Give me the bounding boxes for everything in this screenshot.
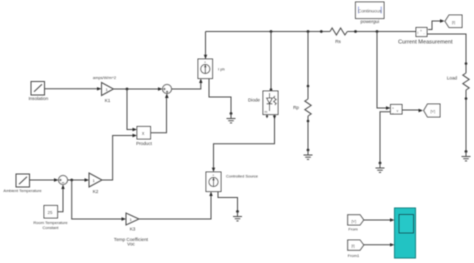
svg-text:powergui: powergui xyxy=(360,19,379,24)
svg-text:Constant: Constant xyxy=(42,225,59,230)
junction rail-diode xyxy=(270,30,273,33)
ground G2 xyxy=(304,149,313,160)
constant block Room Temperature Constant xyxy=(44,206,58,219)
wire Insolation to K1 xyxy=(45,88,99,90)
junction on K1 output xyxy=(126,88,129,91)
wire constant to Sum2 xyxy=(58,188,64,212)
svg-text:Diode: Diode xyxy=(248,97,260,102)
svg-text:1: 1 xyxy=(130,217,133,222)
wire From V to Scope xyxy=(364,219,392,221)
resistor Load xyxy=(463,73,469,90)
wire Sum2 branch to K3 xyxy=(72,180,123,219)
wire Iph negative to ground xyxy=(209,79,231,114)
svg-text:From: From xyxy=(348,226,358,231)
wire K2 to Product input 2 xyxy=(102,136,133,181)
svg-text:Voc: Voc xyxy=(127,242,135,247)
scope block xyxy=(395,208,416,258)
wire Sum2 to K2 xyxy=(68,179,87,181)
gain K2 xyxy=(89,173,102,187)
svg-text:K1: K1 xyxy=(105,98,111,103)
wire Iph top to positive rail xyxy=(205,32,207,60)
svg-text:Rs: Rs xyxy=(335,39,341,44)
wire positive rail xyxy=(206,31,331,33)
wire rail to Rp xyxy=(307,32,309,100)
wire From I to Scope xyxy=(364,244,392,246)
product block Product xyxy=(137,127,151,140)
wire rail to voltage measurement plus xyxy=(377,32,388,109)
ground G5 xyxy=(376,162,385,173)
svg-text:25: 25 xyxy=(48,210,53,215)
gain K1 xyxy=(102,83,114,96)
svg-text:Rp: Rp xyxy=(293,105,299,110)
ground G1 xyxy=(227,112,236,123)
svg-text:Product: Product xyxy=(136,141,153,146)
source block Ambient Temperature xyxy=(16,174,30,187)
ground G4 xyxy=(462,150,471,161)
wire Product output to Sum1 bottom xyxy=(151,98,167,133)
svg-text:Load: Load xyxy=(447,76,458,81)
wire K1 to Sum1 xyxy=(114,88,160,90)
diode measurement stub xyxy=(266,115,268,117)
wire Rp to ground xyxy=(307,116,309,150)
wire Load to ground xyxy=(465,90,467,152)
junction rail-voltmeter xyxy=(376,30,379,33)
junction Sum2 output xyxy=(70,179,73,182)
svg-text:amps/W/m^2: amps/W/m^2 xyxy=(93,75,117,80)
wire branch to Product input 1 xyxy=(127,89,133,130)
svg-text:K2: K2 xyxy=(93,189,99,194)
svg-text:m: m xyxy=(265,110,268,114)
diode D xyxy=(263,91,278,115)
svg-text:[I]: [I] xyxy=(352,244,355,248)
controlled current source U2 xyxy=(206,172,221,192)
svg-text:I ph: I ph xyxy=(218,67,225,72)
wire Sum1 to Iph signal input xyxy=(172,82,201,89)
resistor Rp xyxy=(305,99,311,116)
sum block Sum2 xyxy=(59,176,68,185)
voltage measurement block xyxy=(391,105,403,115)
from tag I xyxy=(348,240,364,250)
svg-text:[V]: [V] xyxy=(352,219,357,223)
ground G3 xyxy=(233,210,242,221)
wire rail to Diode xyxy=(270,32,272,92)
wire voltage measurement minus to ground xyxy=(380,112,391,163)
svg-text:[V]: [V] xyxy=(431,110,436,114)
svg-text:Controlled Source: Controlled Source xyxy=(226,174,259,179)
source block Insolation xyxy=(31,82,45,96)
svg-text:Insolation: Insolation xyxy=(28,96,48,101)
sum block Sum1 xyxy=(163,85,172,94)
junction rail-Rp xyxy=(307,30,310,33)
arrow into controlled source top xyxy=(212,168,215,172)
svg-text:K3: K3 xyxy=(130,227,136,232)
svg-text:Current Measurement: Current Measurement xyxy=(398,39,453,45)
wire K3 to controlled source input xyxy=(139,195,211,220)
goto tag I xyxy=(445,15,462,28)
svg-text:1: 1 xyxy=(93,178,96,183)
svg-text:[I]: [I] xyxy=(452,20,455,24)
svg-text:From1: From1 xyxy=(348,253,360,258)
wire Ambient Temperature to Sum2 xyxy=(30,179,56,181)
current measurement block xyxy=(416,28,427,37)
wire voltage measurement to Goto V xyxy=(402,109,419,111)
svg-text:1: 1 xyxy=(106,87,109,92)
goto tag V xyxy=(424,104,440,117)
resistor Rs xyxy=(330,28,347,35)
wire current measurement to Load xyxy=(427,34,466,73)
wire Diode bottom to Controlled Source top xyxy=(214,115,275,170)
controlled current source Iph xyxy=(198,59,213,79)
svg-text:Ambient Temperature: Ambient Temperature xyxy=(3,188,42,193)
svg-text:v: v xyxy=(397,109,399,113)
svg-text:+: + xyxy=(420,29,422,33)
svg-text:Continuous: Continuous xyxy=(358,8,382,13)
from tag V xyxy=(348,215,364,225)
gain K3 xyxy=(126,213,139,225)
wire controlled source negative to ground xyxy=(218,192,238,212)
wire current measurement to Goto I xyxy=(428,21,441,30)
powergui block xyxy=(356,2,385,19)
